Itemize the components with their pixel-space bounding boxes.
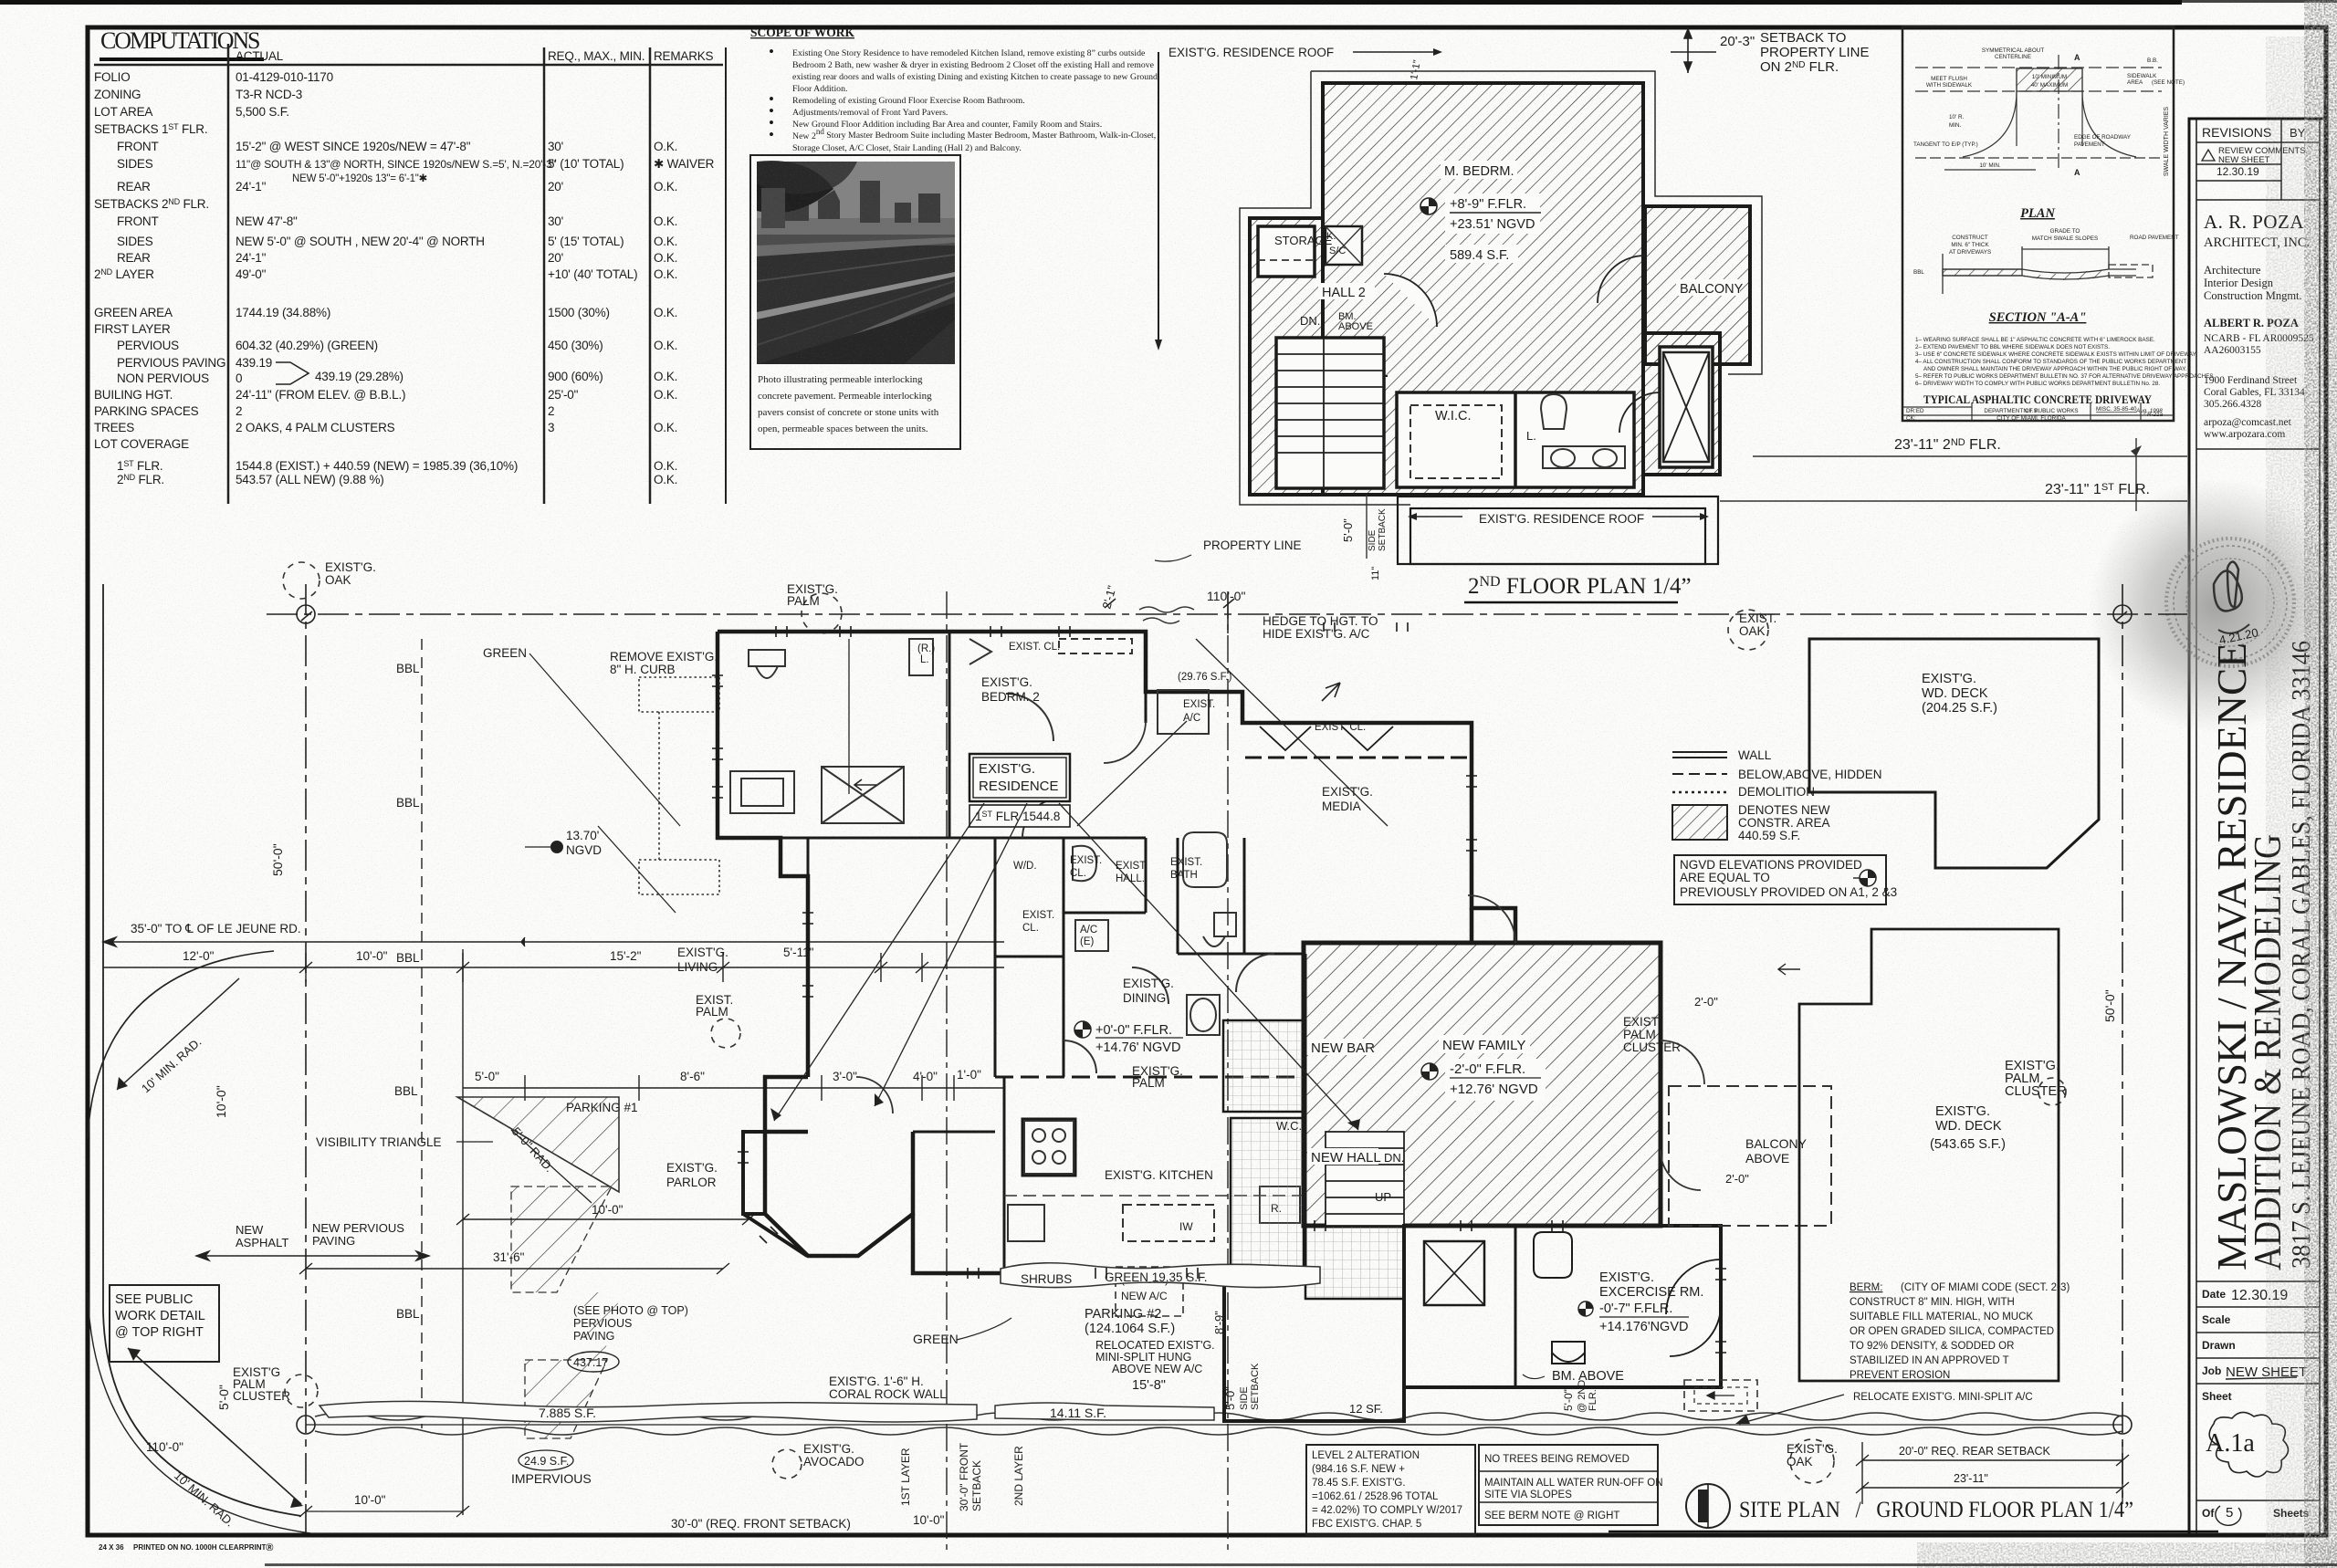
svg-text:EXIST'G.: EXIST'G. — [1123, 977, 1174, 990]
svg-text:10'-0": 10'-0" — [592, 1203, 624, 1217]
svg-text:(SEE PHOTO @ TOP): (SEE PHOTO @ TOP) — [573, 1304, 688, 1317]
svg-text:30': 30' — [548, 214, 563, 228]
svg-text:+8'-9" F.FLR.: +8'-9" F.FLR. — [1450, 197, 1526, 212]
svg-text:MATCH SWALE SLOPES: MATCH SWALE SLOPES — [2032, 235, 2098, 242]
svg-text:450 (30%): 450 (30%) — [548, 339, 603, 352]
svg-text:HALL 2: HALL 2 — [1322, 286, 1366, 300]
svg-text:CLUSTER: CLUSTER — [233, 1389, 290, 1403]
svg-text:OR OPEN GRADED SILICA, COMPACT: OR OPEN GRADED SILICA, COMPACTED — [1850, 1326, 2054, 1337]
svg-text:EXIST'G.: EXIST'G. — [1599, 1270, 1654, 1285]
svg-text:L.: L. — [920, 654, 929, 665]
svg-text:2'-0": 2'-0" — [1725, 1172, 1749, 1186]
svg-text:EXIST'G.: EXIST'G. — [981, 675, 1032, 689]
svg-text:2'-0": 2'-0" — [1694, 995, 1718, 1009]
svg-text:+10' (40' TOTAL): +10' (40' TOTAL) — [548, 267, 637, 281]
svg-text:PERVIOUS PAVING: PERVIOUS PAVING — [117, 356, 225, 370]
svg-text:1ST LAYER: 1ST LAYER — [899, 1448, 912, 1506]
svg-text:NGVD ELEVATIONS PROVIDED: NGVD ELEVATIONS PROVIDED — [1680, 858, 1862, 872]
svg-text:VISIBILITY TRIANGLE: VISIBILITY TRIANGLE — [316, 1135, 442, 1149]
svg-text:2– EXTEND PAVEMENT TO BBL WHE: 2– EXTEND PAVEMENT TO BBL WHERE SIDEWALK… — [1915, 344, 2110, 350]
svg-text:Remodeling of existing Ground: Remodeling of existing Ground Floor Exer… — [792, 96, 1025, 106]
svg-text:604.32 (40.29%) (GREEN): 604.32 (40.29%) (GREEN) — [236, 339, 378, 352]
svg-text:B.B.: B.B. — [2147, 57, 2158, 64]
svg-text:A: A — [2074, 53, 2080, 62]
svg-text:BALCONY: BALCONY — [1745, 1136, 1808, 1151]
svg-text:2ND FLOOR PLAN 1/4”: 2ND FLOOR PLAN 1/4” — [1468, 574, 1692, 599]
svg-text:DEPARTMENT OF PUBLIC WORKS: DEPARTMENT OF PUBLIC WORKS — [1984, 408, 2078, 414]
svg-text:8'-6": 8'-6" — [680, 1070, 705, 1083]
svg-text:CK:: CK: — [1906, 415, 1916, 422]
svg-text:SITE VIA SLOPES: SITE VIA SLOPES — [1484, 1490, 1572, 1500]
svg-text:TYPICAL ASPHALTIC CONCRETE DRI: TYPICAL ASPHALTIC CONCRETE DRIVEWAY — [1923, 393, 2152, 406]
svg-text:23'-11" 1ST FLR.: 23'-11" 1ST FLR. — [2045, 482, 2150, 497]
svg-text:EXCERCISE RM.: EXCERCISE RM. — [1599, 1285, 1703, 1300]
svg-text:O.K.: O.K. — [654, 180, 677, 193]
svg-text:EXIST'G.: EXIST'G. — [803, 1442, 854, 1456]
svg-text:O.K.: O.K. — [654, 267, 677, 281]
svg-text:PALM: PALM — [696, 1005, 728, 1019]
svg-text:A: A — [2074, 168, 2080, 177]
svg-text:437.17: 437.17 — [573, 1356, 608, 1369]
svg-text:O.K.: O.K. — [654, 339, 677, 352]
svg-text:RELOCATE EXIST'G. MINI-SPLIT A: RELOCATE EXIST'G. MINI-SPLIT A/C — [1853, 1392, 2033, 1403]
svg-text:Bedroom 2 Bath, new washer & d: Bedroom 2 Bath, new washer & dryer in ex… — [792, 60, 1155, 70]
svg-text:49'-0": 49'-0" — [236, 267, 267, 281]
svg-text:CORAL ROCK WALL: CORAL ROCK WALL — [829, 1387, 947, 1401]
svg-text:pavers consist of concrete or: pavers consist of concrete or stone unit… — [758, 407, 939, 418]
svg-text:12'-0": 12'-0" — [183, 949, 215, 963]
svg-text:11": 11" — [1370, 567, 1381, 580]
svg-text:12 SF.: 12 SF. — [1349, 1402, 1383, 1416]
svg-text:23'-11": 23'-11" — [1954, 1472, 1988, 1485]
svg-text:589.4 S.F.: 589.4 S.F. — [1450, 248, 1509, 263]
svg-text:439.19: 439.19 — [236, 356, 272, 370]
svg-text:5' (10' TOTAL): 5' (10' TOTAL) — [548, 157, 624, 171]
svg-text:UP: UP — [1375, 1190, 1391, 1204]
svg-text:LOT AREA: LOT AREA — [94, 105, 152, 119]
svg-text:24.9 S.F.: 24.9 S.F. — [524, 1455, 569, 1468]
svg-text:PALM: PALM — [1623, 1028, 1656, 1041]
svg-text:IW: IW — [1179, 1220, 1193, 1233]
svg-text:•: • — [769, 126, 774, 143]
svg-text:PARLOR: PARLOR — [666, 1176, 717, 1189]
svg-text:110'-0": 110'-0" — [1207, 589, 1245, 603]
svg-text:NEW SHEET: NEW SHEET — [2218, 155, 2270, 165]
svg-text:Job: Job — [2202, 1364, 2221, 1377]
svg-text:15'-2" @ WEST SINCE 1920s/NEW: 15'-2" @ WEST SINCE 1920s/NEW = 47'-8" — [236, 140, 471, 153]
svg-text:2 OAKS, 4 PALM CLUSTERS: 2 OAKS, 4 PALM CLUSTERS — [236, 421, 395, 434]
svg-text:EXIST'G.: EXIST'G. — [1787, 1442, 1838, 1456]
svg-text:5'-0": 5'-0" — [1341, 518, 1355, 542]
svg-text:13.70': 13.70' — [566, 829, 599, 842]
svg-text:40' MAXIMUM: 40' MAXIMUM — [2031, 82, 2068, 89]
svg-text:O.K.: O.K. — [654, 421, 677, 434]
svg-text:WD. DECK: WD. DECK — [1922, 686, 1988, 701]
svg-text:20'-0" REQ. REAR SETBACK: 20'-0" REQ. REAR SETBACK — [1899, 1445, 2051, 1458]
svg-text:24'-11" (FROM ELEV. @ B.B.L.): 24'-11" (FROM ELEV. @ B.B.L.) — [236, 388, 405, 402]
svg-text:SEE PUBLIC: SEE PUBLIC — [115, 1292, 193, 1307]
svg-text:NGVD: NGVD — [566, 843, 602, 857]
svg-text:10' MINIMUM: 10' MINIMUM — [2032, 74, 2067, 80]
svg-text:20': 20' — [548, 180, 563, 193]
svg-text:FIRST LAYER: FIRST LAYER — [94, 322, 171, 336]
svg-text:REAR: REAR — [117, 251, 151, 265]
svg-text:BELOW,ABOVE, HIDDEN: BELOW,ABOVE, HIDDEN — [1738, 768, 1882, 781]
svg-text:+23.51' NGVD: +23.51' NGVD — [1450, 217, 1535, 232]
svg-text:REMOVE EXIST'G.: REMOVE EXIST'G. — [610, 650, 718, 664]
svg-text:(R.): (R.) — [917, 643, 935, 654]
svg-text:DN.: DN. — [1300, 314, 1320, 328]
svg-text:IMPERVIOUS: IMPERVIOUS — [511, 1471, 592, 1486]
svg-text:Architecture: Architecture — [2204, 264, 2261, 277]
svg-text:PARKING #2: PARKING #2 — [1085, 1307, 1161, 1322]
svg-text:ROAD PAVEMENT: ROAD PAVEMENT — [2130, 235, 2179, 241]
svg-text:(CITY OF MIAMI CODE (SECT. 2•3: (CITY OF MIAMI CODE (SECT. 2•3) — [1901, 1282, 2070, 1293]
svg-text:2ND LAYER: 2ND LAYER — [1012, 1446, 1025, 1506]
svg-text:30': 30' — [548, 140, 563, 153]
svg-text:BBL: BBL — [396, 796, 420, 810]
svg-text:2: 2 — [236, 404, 242, 418]
svg-text:4– ALL CONSTRUCTION SHALL CON: 4– ALL CONSTRUCTION SHALL CONFORM TO STA… — [1915, 359, 2186, 365]
svg-text:10'-0": 10'-0" — [913, 1513, 945, 1527]
svg-text:BATH: BATH — [1170, 870, 1198, 881]
svg-text:@ TOP RIGHT: @ TOP RIGHT — [115, 1325, 204, 1340]
svg-text:10'-0": 10'-0" — [354, 1493, 386, 1507]
svg-text:EXIST'G.: EXIST'G. — [677, 946, 728, 959]
svg-text:PROPERTY LINE: PROPERTY LINE — [1760, 45, 1870, 60]
svg-text:Of: Of — [2202, 1507, 2215, 1520]
svg-text:EXIST'G. RESIDENCE ROOF: EXIST'G. RESIDENCE ROOF — [1479, 512, 1644, 526]
svg-text:ZONING: ZONING — [94, 88, 141, 101]
svg-text:STORAGE: STORAGE — [1274, 234, 1333, 247]
svg-text:ASPHALT: ASPHALT — [236, 1236, 288, 1249]
svg-text:EXIST'G.: EXIST'G. — [666, 1161, 718, 1175]
svg-text:GREEN AREA: GREEN AREA — [94, 306, 173, 319]
svg-text:FBC EXIST'G. CHAP. 5: FBC EXIST'G. CHAP. 5 — [1312, 1519, 1421, 1530]
svg-text:W/D.: W/D. — [1013, 861, 1037, 872]
svg-text:W.C.: W.C. — [1276, 1119, 1302, 1133]
svg-text:MIN. 6" THICK: MIN. 6" THICK — [1951, 242, 1989, 248]
svg-text:M. BEDRM.: M. BEDRM. — [1444, 164, 1514, 179]
svg-text:-0'-7" F.FLR.: -0'-7" F.FLR. — [1599, 1301, 1672, 1316]
svg-text:23'-11" 2ND FLR.: 23'-11" 2ND FLR. — [1894, 437, 2001, 453]
svg-text:ABOVE: ABOVE — [1338, 321, 1373, 332]
svg-text:1744.19 (34.88%): 1744.19 (34.88%) — [236, 306, 330, 319]
svg-text:5– REFER TO PUBLIC WORKS DEPA: 5– REFER TO PUBLIC WORKS DEPARTMENT BULL… — [1915, 373, 2216, 380]
svg-text:SUITABLE FILL MATERIAL, NO MUC: SUITABLE FILL MATERIAL, NO MUCK — [1850, 1312, 2033, 1322]
svg-text:OAK: OAK — [325, 573, 351, 587]
svg-text:2: 2 — [548, 404, 554, 418]
svg-text:EXIST.: EXIST. — [1183, 699, 1215, 710]
svg-text:20': 20' — [548, 251, 563, 265]
svg-text:S/C: S/C — [1329, 246, 1346, 256]
svg-text:EXIST.: EXIST. — [1739, 612, 1776, 625]
svg-text:MEET FLUSH: MEET FLUSH — [1931, 76, 1967, 82]
svg-text:PAVEMENT: PAVEMENT — [2074, 141, 2105, 148]
svg-text:New Ground Floor Addition incl: New Ground Floor Addition including Bar … — [792, 120, 1102, 130]
svg-text:31'-6": 31'-6" — [493, 1250, 525, 1264]
svg-text:SETBACKS 2ND FLR.: SETBACKS 2ND FLR. — [94, 197, 209, 211]
svg-text:CENTERLINE: CENTERLINE — [1995, 54, 2031, 60]
svg-text:10'-0": 10'-0" — [214, 1085, 228, 1118]
svg-text:0: 0 — [236, 371, 242, 385]
svg-text:AA26003155: AA26003155 — [2204, 345, 2261, 356]
svg-text:305.266.4328: 305.266.4328 — [2204, 399, 2262, 410]
svg-text:REVISIONS: REVISIONS — [2202, 125, 2271, 140]
svg-text:EXIST. CL.: EXIST. CL. — [1009, 642, 1060, 653]
svg-text:GRADE TO: GRADE TO — [2050, 228, 2080, 235]
svg-text:LOT COVERAGE: LOT COVERAGE — [94, 437, 189, 451]
svg-text:900 (60%): 900 (60%) — [548, 370, 603, 383]
svg-text:10' R.: 10' R. — [1949, 114, 1965, 120]
svg-text:SIDE: SIDE — [1368, 529, 1378, 551]
svg-text:WD. DECK: WD. DECK — [1935, 1119, 2002, 1134]
svg-text:BBL: BBL — [396, 951, 420, 965]
svg-text:CL.: CL. — [1022, 923, 1039, 934]
svg-text:=1062.61 / 2528.96 TOTAL: =1062.61 / 2528.96 TOTAL — [1312, 1491, 1439, 1502]
svg-text:open, permeable spaces between: open, permeable spaces between the units… — [758, 423, 928, 434]
svg-text:REMARKS: REMARKS — [654, 49, 714, 63]
svg-text:(543.65 S.F.): (543.65 S.F.) — [1930, 1137, 2006, 1152]
svg-text:PREVIOUSLY PROVIDED ON A1, 2 &: PREVIOUSLY PROVIDED ON A1, 2 &3 — [1680, 885, 1897, 899]
svg-text:ACTUAL: ACTUAL — [236, 49, 284, 63]
svg-text:SITE PLAN / GROUND FLOOR P: SITE PLAN / GROUND FLOOR PLAN 1/4” — [1739, 1498, 2133, 1522]
svg-text:BBL: BBL — [394, 1084, 418, 1098]
svg-text:PAVING: PAVING — [573, 1330, 614, 1343]
svg-text:ABOVE: ABOVE — [1745, 1151, 1789, 1166]
svg-text:7.885 S.F.: 7.885 S.F. — [539, 1406, 596, 1420]
svg-text:O.K.: O.K. — [654, 306, 677, 319]
svg-text:78.45 S.F. EXIST'G.: 78.45 S.F. EXIST'G. — [1312, 1478, 1406, 1489]
svg-text:PALM: PALM — [787, 594, 820, 608]
svg-text:+12.76' NGVD: +12.76' NGVD — [1450, 1082, 1538, 1097]
svg-text:SETBACK: SETBACK — [1250, 1363, 1261, 1410]
svg-text:EXIST'G.: EXIST'G. — [1922, 672, 1976, 686]
svg-text:24 X 36: 24 X 36 — [99, 1543, 124, 1552]
svg-text:REQ., MAX., MIN.: REQ., MAX., MIN. — [548, 49, 645, 63]
svg-text:4'-0": 4'-0" — [913, 1070, 938, 1083]
svg-text:FOLIO: FOLIO — [94, 70, 131, 84]
svg-text:RELOCATED EXIST'G.: RELOCATED EXIST'G. — [1095, 1339, 1215, 1352]
svg-text:DN.: DN. — [1384, 1151, 1404, 1165]
svg-text:SETBACK: SETBACK — [970, 1460, 983, 1511]
svg-text:DINING: DINING — [1123, 991, 1166, 1005]
svg-text:BBL: BBL — [396, 662, 420, 675]
svg-text:BALCONY: BALCONY — [1680, 282, 1744, 297]
svg-text:NEW BAR: NEW BAR — [1311, 1040, 1375, 1056]
svg-text:SIDES: SIDES — [117, 157, 153, 171]
svg-text:Storage Closet, A/C Closet, St: Storage Closet, A/C Closet, Stair Landin… — [792, 143, 1022, 153]
svg-text:NEW A/C: NEW A/C — [1121, 1290, 1168, 1302]
svg-text:BUILING HGT.: BUILING HGT. — [94, 388, 173, 402]
svg-text:EXIST.: EXIST. — [1170, 857, 1202, 868]
svg-text:LIVING: LIVING — [677, 960, 718, 974]
svg-text:NEW 5'-0"+1920s 13"= 6'-1"✱: NEW 5'-0"+1920s 13"= 6'-1"✱ — [292, 173, 428, 184]
svg-text:50'-0": 50'-0" — [270, 843, 285, 876]
svg-text:SYMMETRICAL ABOUT: SYMMETRICAL ABOUT — [1982, 47, 2044, 54]
svg-text:SIDES: SIDES — [117, 235, 153, 248]
svg-text:DEMOLITION: DEMOLITION — [1738, 785, 1815, 799]
svg-text:1500 (30%): 1500 (30%) — [548, 306, 610, 319]
svg-text:WALL: WALL — [1738, 748, 1772, 762]
svg-text:PERVIOUS: PERVIOUS — [117, 339, 179, 352]
svg-text:5,500 S.F.: 5,500 S.F. — [236, 105, 289, 119]
svg-text:O.K.: O.K. — [654, 370, 677, 383]
svg-text:O.K.: O.K. — [654, 251, 677, 265]
svg-text:3: 3 — [548, 421, 554, 434]
svg-text:BBL: BBL — [1913, 269, 1924, 276]
svg-text:O.K.: O.K. — [654, 388, 677, 402]
svg-text:10' MIN.: 10' MIN. — [1979, 162, 2000, 169]
svg-text:FLR.: FLR. — [1588, 1389, 1598, 1411]
svg-text:GREEN: GREEN — [483, 646, 527, 660]
svg-text:Interior Design: Interior Design — [2204, 277, 2274, 289]
svg-text:EXIST'G.: EXIST'G. — [979, 761, 1035, 777]
svg-text:5'-0": 5'-0" — [1223, 1386, 1237, 1410]
svg-text:50'-0": 50'-0" — [2102, 989, 2117, 1022]
svg-text:NEW PERVIOUS: NEW PERVIOUS — [312, 1221, 404, 1235]
svg-text:3– USE 6" CONCRETE SIDEWALK W: 3– USE 6" CONCRETE SIDEWALK WHERE CONCRE… — [1915, 351, 2197, 358]
svg-text:REAR: REAR — [117, 180, 151, 193]
svg-text:14.11 S.F.: 14.11 S.F. — [1050, 1406, 1106, 1420]
svg-text:Drawn: Drawn — [2202, 1339, 2236, 1352]
svg-text:Date: Date — [2202, 1288, 2226, 1301]
svg-text:+14.176'NGVD: +14.176'NGVD — [1599, 1320, 1688, 1334]
svg-text:L.: L. — [1526, 429, 1536, 443]
svg-text:NEW 47'-8": NEW 47'-8" — [236, 214, 298, 228]
svg-text:PRINTED ON NO. 1000H CLEARPRIN: PRINTED ON NO. 1000H CLEARPRINTⓇ — [133, 1542, 273, 1552]
svg-text:AT DRIVEWAYS: AT DRIVEWAYS — [1949, 249, 1991, 256]
svg-text:AVOCADO: AVOCADO — [803, 1455, 865, 1469]
svg-text:existing rear doors and walls: existing rear doors and walls of existin… — [792, 72, 1158, 82]
svg-text:12.30.19: 12.30.19 — [2216, 165, 2259, 178]
svg-text:20'-3": 20'-3" — [1720, 34, 1755, 49]
svg-text:BEDRM. 2: BEDRM. 2 — [981, 690, 1040, 704]
svg-text:O.K.: O.K. — [654, 459, 677, 473]
svg-text:5'-0": 5'-0" — [1562, 1389, 1575, 1411]
svg-text:PLAN: PLAN — [2020, 206, 2055, 221]
svg-text:DENOTES NEW: DENOTES NEW — [1738, 803, 1830, 817]
svg-text:AND OWNER SHALL MAINTAIN THE D: AND OWNER SHALL MAINTAIN THE DRIVEWAY AP… — [1923, 366, 2187, 372]
svg-text:440.59 S.F.: 440.59 S.F. — [1738, 829, 1800, 842]
svg-text:8'-9": 8'-9" — [1212, 1311, 1226, 1334]
svg-text:HIDE EXIST'G. A/C: HIDE EXIST'G. A/C — [1263, 627, 1370, 641]
svg-text:01-4129-010-1170: 01-4129-010-1170 — [236, 70, 333, 84]
svg-text:HEDGE TO HGT. TO: HEDGE TO HGT. TO — [1263, 614, 1378, 628]
svg-text:(124.1064 S.F.): (124.1064 S.F.) — [1085, 1322, 1175, 1336]
svg-text:CL.: CL. — [1070, 868, 1086, 879]
svg-text:11"@ SOUTH & 13"@ NORTH, SINCE: 11"@ SOUTH & 13"@ NORTH, SINCE 1920s/NEW… — [236, 158, 556, 171]
svg-text:Existing One Story Residence t: Existing One Story Residence to have rem… — [792, 48, 1146, 58]
svg-text:FRONT: FRONT — [117, 214, 159, 228]
svg-text:SETBACK TO: SETBACK TO — [1760, 30, 1846, 46]
svg-text:LEVEL 2 ALTERATION: LEVEL 2 ALTERATION — [1312, 1450, 1420, 1461]
svg-text:5'-0": 5'-0" — [475, 1070, 499, 1083]
svg-text:MAINTAIN ALL WATER RUN-OFF ON: MAINTAIN ALL WATER RUN-OFF ON — [1484, 1478, 1663, 1489]
svg-text:35'-0" TO ℄ OF LE JEUNE RD.: 35'-0" TO ℄ OF LE JEUNE RD. — [131, 922, 301, 936]
svg-text:+14.76' NGVD: +14.76' NGVD — [1095, 1040, 1180, 1055]
svg-text:1– WEARING SURFACE SHALL BE 1: 1– WEARING SURFACE SHALL BE 1" ASPHALTIC… — [1915, 337, 2155, 343]
svg-text:O.K.: O.K. — [654, 140, 677, 153]
svg-text:NEW FAMILY: NEW FAMILY — [1442, 1038, 1525, 1053]
svg-text:OAK: OAK — [1739, 624, 1766, 638]
svg-text:NON PERVIOUS: NON PERVIOUS — [117, 371, 209, 385]
svg-text:543.57 (ALL NEW) (9.88 %): 543.57 (ALL NEW) (9.88 %) — [236, 473, 384, 486]
svg-text:EXIST'G. KITCHEN: EXIST'G. KITCHEN — [1105, 1168, 1213, 1182]
svg-text:25'-0": 25'-0" — [548, 388, 579, 402]
svg-text:-2'-0" F.FLR.: -2'-0" F.FLR. — [1450, 1061, 1525, 1077]
svg-text:TREES: TREES — [94, 421, 134, 434]
svg-text:EXIST'G.: EXIST'G. — [1935, 1104, 1990, 1119]
svg-text:T3-R NCD-3: T3-R NCD-3 — [236, 88, 302, 101]
svg-text:(984.16 S.F. NEW +: (984.16 S.F. NEW + — [1312, 1464, 1405, 1475]
svg-text:WORK DETAIL: WORK DETAIL — [115, 1309, 205, 1323]
svg-text:CONSTR. AREA: CONSTR. AREA — [1738, 816, 1830, 830]
svg-text:5: 5 — [2226, 1505, 2233, 1521]
svg-text:GREEN 19.35 S.F.: GREEN 19.35 S.F. — [1105, 1270, 1208, 1284]
svg-text:SETBACK: SETBACK — [1378, 508, 1388, 551]
svg-text:(29.76 S.F.): (29.76 S.F.) — [1178, 672, 1232, 683]
svg-text:RESIDENCE: RESIDENCE — [979, 779, 1059, 794]
svg-text:30'-0" FRONT: 30'-0" FRONT — [958, 1442, 970, 1511]
svg-text:MEDIA: MEDIA — [1322, 800, 1361, 813]
svg-text:MIN.: MIN. — [1949, 122, 1962, 129]
svg-text:(SEE NOTE): (SEE NOTE) — [2152, 79, 2185, 86]
svg-text:W.I.C.: W.I.C. — [1435, 409, 1471, 423]
svg-text:TANGENT TO E/P (TYP.): TANGENT TO E/P (TYP.) — [1913, 141, 1978, 148]
svg-text:24'-1": 24'-1" — [236, 251, 267, 265]
svg-text:PARKING SPACES: PARKING SPACES — [94, 404, 199, 418]
svg-text:✱ WAIVER: ✱ WAIVER — [654, 157, 715, 171]
svg-text:SWALE WIDTH VARIES: SWALE WIDTH VARIES — [2164, 107, 2170, 177]
svg-text:NEW HALL: NEW HALL — [1311, 1150, 1381, 1166]
svg-text:STABILIZED IN AN APPROVED T: STABILIZED IN AN APPROVED T — [1850, 1355, 2009, 1366]
svg-text:439.19 (29.28%): 439.19 (29.28%) — [315, 370, 403, 383]
svg-text:PAVING: PAVING — [312, 1234, 355, 1248]
svg-text:Photo illustrating permeable i: Photo illustrating permeable interlockin… — [758, 374, 923, 385]
svg-text:Floor Addition.: Floor Addition. — [792, 84, 847, 94]
svg-text:SETBACKS 1ST FLR.: SETBACKS 1ST FLR. — [94, 122, 207, 136]
svg-text:PERVIOUS: PERVIOUS — [573, 1317, 632, 1330]
svg-text:Sheet: Sheet — [2202, 1390, 2232, 1403]
svg-text:EDGE OF ROADWAY: EDGE OF ROADWAY — [2074, 134, 2132, 141]
svg-text:15'-8": 15'-8" — [1132, 1378, 1166, 1393]
svg-text:K.: K. — [1326, 231, 1336, 242]
svg-text:PROPERTY LINE: PROPERTY LINE — [1203, 538, 1302, 552]
svg-text:A.1a: A.1a — [2206, 1429, 2255, 1458]
svg-text:5' (15' TOTAL): 5' (15' TOTAL) — [548, 235, 624, 248]
svg-text:R-21a: R-21a — [2147, 412, 2164, 418]
svg-text:SEE BERM NOTE @ RIGHT: SEE BERM NOTE @ RIGHT — [1484, 1511, 1619, 1521]
svg-text:NEW 5'-0" @ SOUTH , NEW 20'-4": NEW 5'-0" @ SOUTH , NEW 20'-4" @ NORTH — [236, 235, 485, 248]
svg-text:CONSTRUCT 8" MIN. HIGH, WITH: CONSTRUCT 8" MIN. HIGH, WITH — [1850, 1297, 2015, 1308]
svg-text:(204.25 S.F.): (204.25 S.F.) — [1922, 701, 1997, 716]
svg-text:24'-1": 24'-1" — [236, 180, 267, 193]
svg-text:30'-0" (REQ. FRONT SETBACK): 30'-0" (REQ. FRONT SETBACK) — [671, 1517, 851, 1531]
svg-text:MINI-SPLIT HUNG: MINI-SPLIT HUNG — [1095, 1351, 1191, 1364]
svg-text:A/C: A/C — [1080, 925, 1097, 936]
svg-text:PREVENT EROSION: PREVENT EROSION — [1850, 1370, 1950, 1381]
svg-text:= 42.02%) TO COMPLY W/2017: = 42.02%) TO COMPLY W/2017 — [1312, 1505, 1462, 1516]
svg-text:EXIST.: EXIST. — [1070, 855, 1102, 866]
svg-text:6– DRIVEWAY WIDTH TO COMPLY W: 6– DRIVEWAY WIDTH TO COMPLY WITH PUBLIC … — [1915, 381, 2160, 387]
svg-text:•: • — [769, 43, 774, 60]
svg-text:CONSTRUCT: CONSTRUCT — [1952, 235, 1988, 241]
svg-text:CLUSTER: CLUSTER — [2005, 1084, 2067, 1099]
svg-text:EXIST.: EXIST. — [1022, 910, 1054, 921]
svg-text:3'-0": 3'-0" — [833, 1070, 857, 1083]
svg-text:+0'-0" F.FLR.: +0'-0" F.FLR. — [1095, 1023, 1172, 1038]
